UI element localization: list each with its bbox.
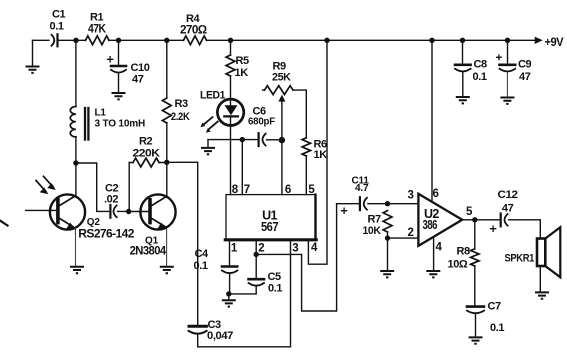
svg-text:C4: C4 xyxy=(195,248,210,260)
svg-text:0,047: 0,047 xyxy=(207,330,233,342)
svg-text:2.2K: 2.2K xyxy=(171,111,190,123)
svg-text:SPKR1: SPKR1 xyxy=(505,253,535,265)
svg-text:C5: C5 xyxy=(268,271,282,283)
svg-text:R5: R5 xyxy=(236,55,250,67)
svg-text:5: 5 xyxy=(466,206,473,218)
svg-text:R8: R8 xyxy=(457,246,471,258)
svg-text:.02: .02 xyxy=(104,194,118,206)
svg-text:4.7: 4.7 xyxy=(355,183,369,194)
svg-text:R3: R3 xyxy=(175,98,189,110)
svg-text:386: 386 xyxy=(423,218,438,232)
svg-text:C10: C10 xyxy=(131,62,150,74)
svg-text:L1: L1 xyxy=(95,108,107,119)
svg-text:47: 47 xyxy=(519,71,531,83)
svg-text:3: 3 xyxy=(408,190,414,202)
svg-text:270Ω: 270Ω xyxy=(180,23,207,37)
svg-text:1K: 1K xyxy=(235,67,249,79)
svg-text:8: 8 xyxy=(232,184,239,196)
svg-text:7: 7 xyxy=(244,184,250,196)
svg-text:2N3804: 2N3804 xyxy=(130,244,167,258)
svg-text:47: 47 xyxy=(132,74,144,86)
svg-text:4: 4 xyxy=(311,242,318,254)
svg-text:680pF: 680pF xyxy=(248,117,275,128)
svg-text:R2: R2 xyxy=(139,136,153,148)
svg-text:47K: 47K xyxy=(88,22,106,36)
svg-text:0.1: 0.1 xyxy=(194,260,208,272)
svg-text:2: 2 xyxy=(258,243,264,255)
svg-text:RS276-142: RS276-142 xyxy=(78,227,134,241)
svg-text:+9V: +9V xyxy=(545,35,564,49)
svg-text:0.1: 0.1 xyxy=(473,71,487,83)
svg-text:C8: C8 xyxy=(474,59,488,71)
svg-text:10Ω: 10Ω xyxy=(448,259,468,271)
svg-text:5: 5 xyxy=(308,184,315,196)
svg-text:6: 6 xyxy=(433,188,439,200)
svg-text:LED1: LED1 xyxy=(200,90,225,102)
svg-text:4: 4 xyxy=(436,242,443,254)
svg-text:25K: 25K xyxy=(272,72,291,84)
svg-text:220K: 220K xyxy=(133,148,160,160)
svg-text:10K: 10K xyxy=(363,225,381,237)
svg-text:2: 2 xyxy=(408,227,414,239)
svg-text:0.1: 0.1 xyxy=(50,21,64,33)
svg-text:R7: R7 xyxy=(368,214,382,226)
svg-text:47: 47 xyxy=(502,203,514,215)
svg-text:0.1: 0.1 xyxy=(268,283,282,295)
svg-text:567: 567 xyxy=(261,220,279,234)
svg-text:C12: C12 xyxy=(498,189,518,201)
svg-text:C1: C1 xyxy=(52,9,66,21)
svg-text:3: 3 xyxy=(292,243,298,255)
svg-text:1: 1 xyxy=(231,243,238,255)
svg-text:3 TO 10mH: 3 TO 10mH xyxy=(95,119,146,130)
svg-text:C7: C7 xyxy=(488,301,502,313)
svg-text:6: 6 xyxy=(285,184,291,196)
svg-text:1K: 1K xyxy=(314,149,328,161)
svg-text:C9: C9 xyxy=(518,59,532,71)
svg-text:0.1: 0.1 xyxy=(490,322,504,334)
